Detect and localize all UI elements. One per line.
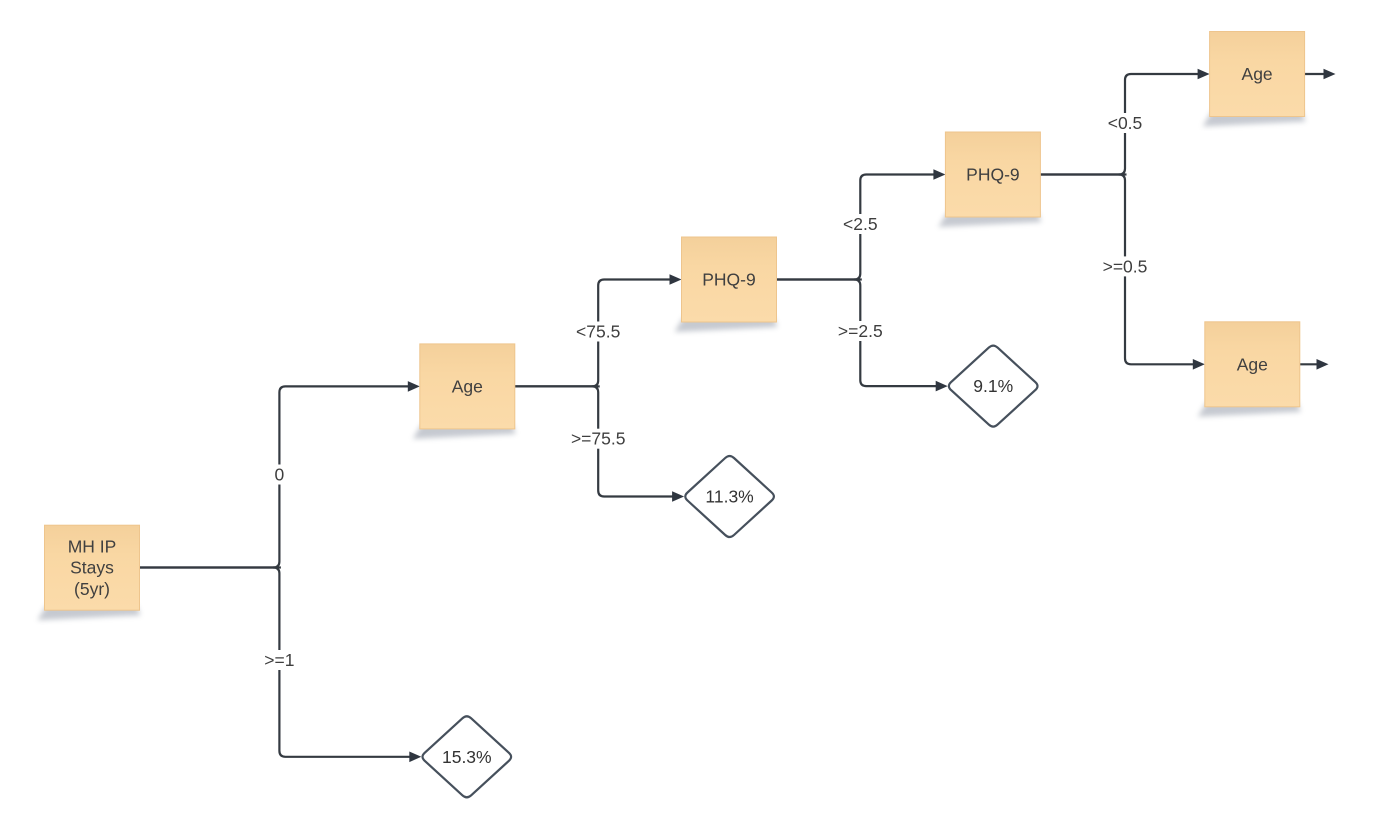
wire exit arrow from top Age node xyxy=(1305,69,1336,80)
svg-text:>=2.5: >=2.5 xyxy=(838,321,883,341)
wire edge PHQ-9->9.1% leaf (branch >=2.5), with arrowhead xyxy=(777,280,948,392)
edge label "<0.5" xyxy=(1106,113,1144,133)
wire exit arrow from bottom Age node xyxy=(1300,359,1329,370)
svg-text:>=1: >=1 xyxy=(264,650,294,670)
junction stub at node split of Age edges xyxy=(592,385,600,387)
wire edge Age->PHQ-9 (branch <75.5), with arrowhead xyxy=(515,274,682,386)
edge label ">=75.5" xyxy=(570,429,627,449)
leaf diamond "15.3%" xyxy=(423,716,512,797)
edge label ">=0.5" xyxy=(1101,256,1149,276)
leaf diamond "9.1%" xyxy=(949,346,1038,427)
junction stub at node split of PHQ-9 edges xyxy=(854,278,862,280)
svg-text:<0.5: <0.5 xyxy=(1108,113,1143,133)
edge label "<2.5" xyxy=(841,214,879,234)
node sticky note "Age" (level 2) xyxy=(413,344,516,439)
wire edge root->15.3% leaf (branch >=1), with arrowhead xyxy=(140,568,422,763)
node sticky note "PHQ-9" (level 3) xyxy=(675,237,778,332)
svg-text:>=75.5: >=75.5 xyxy=(571,429,626,449)
svg-text:<2.5: <2.5 xyxy=(843,214,878,234)
wire edge PHQ-9->PHQ-9 (branch <2.5), with arrowhead xyxy=(777,169,946,279)
node sticky note "PHQ-9" (level 4) xyxy=(938,132,1041,227)
svg-text:PHQ-9: PHQ-9 xyxy=(702,270,755,290)
svg-text:9.1%: 9.1% xyxy=(973,376,1013,396)
svg-text:PHQ-9: PHQ-9 xyxy=(966,165,1019,185)
wire edge PHQ-9->Age top (branch <0.5), with arrowhead xyxy=(1040,69,1209,175)
svg-text:<75.5: <75.5 xyxy=(576,322,620,342)
svg-text:11.3%: 11.3% xyxy=(705,487,753,507)
edge label ">=2.5" xyxy=(836,321,884,341)
svg-text:Age: Age xyxy=(452,376,483,396)
wire edge PHQ-9->Age bottom (branch >=0.5), with arrowhead xyxy=(1040,175,1204,370)
junction stub at node split of second PHQ-9 edges xyxy=(1119,173,1127,175)
edge label ">=1" xyxy=(263,650,296,670)
svg-text:15.3%: 15.3% xyxy=(442,747,492,767)
junction stub at node split of root edges xyxy=(273,566,281,568)
node root sticky note "MH IP Stays (5yr)" xyxy=(38,525,141,620)
svg-text:>=0.5: >=0.5 xyxy=(1103,256,1148,276)
svg-text:Age: Age xyxy=(1237,354,1268,374)
wire edge root->Age (branch 0), with arrowhead xyxy=(140,381,420,567)
node sticky note "Age" (top right) xyxy=(1203,32,1306,127)
svg-text:0: 0 xyxy=(275,465,285,485)
svg-text:MH IPStays(5yr): MH IPStays(5yr) xyxy=(68,536,117,599)
edge label "0" xyxy=(272,465,286,485)
svg-text:Age: Age xyxy=(1242,64,1273,84)
wire edge Age->11.3% leaf (branch >=75.5), with arrowhead xyxy=(515,386,684,501)
edge label "<75.5" xyxy=(575,322,622,342)
leaf diamond "11.3%" xyxy=(685,456,774,537)
node sticky note "Age" (bottom right) xyxy=(1198,322,1301,417)
